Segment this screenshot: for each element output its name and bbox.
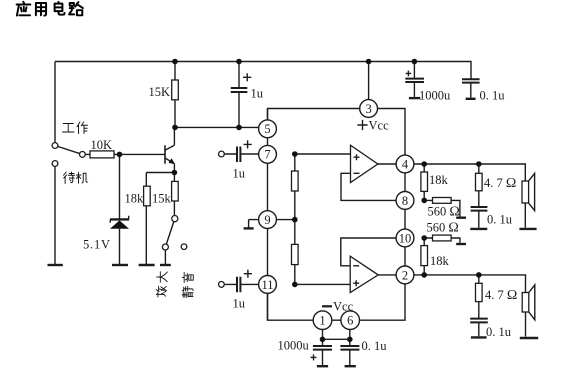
wire 18k feedback column 1: [423, 164, 425, 200]
pin 7: [259, 145, 277, 163]
wire 15k column to mute switch: [173, 173, 175, 216]
wire input 2 to pin11: [224, 283, 267, 285]
wire 10K row: contact to transistor base: [82, 153, 165, 155]
resistor 560 ohm 2: [433, 235, 452, 241]
svg-text:4. 7 Ω: 4. 7 Ω: [484, 176, 516, 191]
svg-text:560 Ω: 560 Ω: [427, 221, 459, 236]
svg-text:10K: 10K: [91, 138, 113, 152]
mute switch terminal amplify: [162, 244, 168, 250]
svg-text:18k: 18k: [125, 192, 145, 206]
svg-text:Vcc: Vcc: [333, 299, 354, 313]
ground mute switch: [160, 264, 171, 266]
svg-text:1: 1: [319, 314, 325, 328]
resistor bias lower: [292, 244, 299, 264]
resistor 15k: [172, 181, 179, 201]
node dots top rail: [172, 59, 178, 65]
wire pin9 ground stem: [248, 220, 250, 228]
capacitor 1000u top: [405, 79, 424, 82]
pin 8: [396, 192, 414, 210]
capacitor input C1: [237, 147, 240, 163]
wire op2 feedback to pin10: [341, 238, 396, 266]
svg-text:1u: 1u: [233, 167, 246, 181]
pin 4: [396, 155, 414, 173]
capacitor 1u top: [231, 88, 248, 92]
svg-text:15k: 15k: [152, 192, 172, 206]
ground 560 ohm 1: [456, 216, 466, 218]
svg-text:4. 7 Ω: 4. 7 Ω: [485, 288, 517, 303]
pin 2: [396, 266, 414, 284]
wire 15K column: [174, 62, 176, 128]
wire pin4 output row to speaker 1: [414, 164, 525, 181]
input terminal 1: [219, 151, 225, 157]
svg-text:1000u: 1000u: [278, 339, 310, 353]
wire switch lever work position: [55, 146, 82, 155]
ground 1000u top: [409, 97, 420, 99]
wire standby branch down to ground: [54, 166, 56, 265]
wire left rail to switch: [54, 62, 56, 143]
capacitor 0.1u bottom: [340, 346, 359, 350]
capacitor input C2: [237, 277, 240, 293]
wire 18k feedback column 2: [423, 238, 425, 275]
capacitor zobel 2: [470, 319, 488, 323]
wire zener column: [119, 154, 121, 265]
pin 5: [259, 120, 277, 138]
svg-text:5: 5: [264, 122, 270, 136]
pin 6: [341, 311, 360, 330]
wire zobel 1 column: [478, 164, 480, 228]
pin 1: [313, 311, 332, 330]
svg-text:18k: 18k: [429, 173, 449, 187]
switch terminal work: [52, 143, 58, 149]
svg-text:15K: 15K: [149, 85, 171, 99]
svg-text:18k: 18k: [430, 254, 450, 268]
wire pin11 row to op-amp 2: [295, 283, 350, 285]
label -Vcc: [322, 305, 332, 307]
ground 1000u bottom: [317, 365, 328, 367]
resistor 560 ohm 1: [433, 198, 452, 204]
svg-text:5.1V: 5.1V: [83, 238, 111, 252]
label 放大 rotated: [156, 272, 167, 297]
wire 560 row 1 to ground: [424, 200, 460, 216]
ground 0.1u bottom: [345, 365, 356, 367]
ground pin9: [244, 227, 254, 229]
wire emitter row to resistors: [146, 172, 174, 174]
svg-text:11: 11: [261, 278, 273, 292]
node dots -Vcc caps: [320, 337, 326, 343]
mute switch terminal top: [172, 216, 178, 222]
svg-text:0. 1u: 0. 1u: [487, 213, 513, 227]
wire op1 output to pin4: [378, 163, 396, 165]
switch terminal moving: [80, 152, 86, 158]
node dots bias column: [292, 151, 298, 157]
speaker LS1: [522, 173, 535, 210]
ground left rail: [48, 264, 63, 266]
svg-text:Vcc: Vcc: [369, 119, 390, 133]
svg-text:1u: 1u: [233, 297, 246, 311]
pin 11: [259, 276, 277, 294]
wire input 1 to pin7: [224, 153, 267, 155]
wire 1u cap column bottom: [238, 92, 240, 127]
ground zobel 2: [471, 336, 487, 338]
ground 0.1u top: [466, 98, 476, 100]
wire 1000u top cap stem: [413, 62, 415, 97]
wire op1 feedback to pin8: [341, 173, 396, 200]
ground speaker 1: [519, 228, 536, 230]
svg-text:560 Ω: 560 Ω: [428, 205, 460, 220]
pin 3: [360, 100, 378, 118]
wire pin5 row: [175, 126, 268, 128]
wire pin1/pin6 decoupling stems: [323, 329, 350, 365]
wire speaker 2 to ground: [525, 312, 527, 337]
ground zener: [112, 264, 128, 266]
ground 560 ohm 2: [456, 243, 466, 245]
capacitor 1000u bottom: [313, 346, 332, 350]
title 应用电路: [17, 2, 83, 16]
pin 10: [396, 229, 414, 247]
svg-text:8: 8: [402, 194, 408, 208]
node dot emitter: [172, 170, 178, 176]
input terminal 2: [219, 282, 225, 288]
wire mute switch to ground: [164, 247, 166, 265]
wire pin3 stem to top rail: [368, 62, 370, 101]
ground zobel 1: [470, 228, 487, 230]
wire 18k left column: [145, 173, 147, 266]
svg-text:2: 2: [402, 268, 408, 282]
label 工作: [63, 122, 88, 134]
speaker LS2: [522, 285, 535, 320]
wire left pin column 5-7-9-11: [267, 109, 269, 321]
capacitor 0.1u top: [462, 79, 480, 82]
wire 0.1u top cap stem: [470, 83, 472, 98]
svg-text:0. 1u: 0. 1u: [486, 325, 512, 339]
node dots right column: [421, 161, 427, 167]
capacitor zobel 1: [471, 207, 488, 211]
wire top +Vcc rail: [55, 62, 471, 80]
wire mute switch lever: [165, 219, 174, 247]
node dots pin5 row: [172, 125, 178, 131]
wire 1u cap column top: [238, 62, 240, 89]
transistor Q1: [165, 127, 175, 172]
resistor 18k left: [144, 186, 151, 206]
svg-text:4: 4: [402, 157, 409, 171]
svg-text:6: 6: [347, 314, 353, 328]
resistor 4.7 ohm 1: [476, 173, 483, 191]
wire IC ring: top bus to pin3, right column pins 4-8-10-2, bottom -Vcc bus, left column pins 5-7-9-11: [268, 109, 406, 321]
svg-text:3: 3: [365, 102, 371, 116]
svg-text:9: 9: [264, 213, 270, 227]
zener diode 5.1V: [110, 216, 129, 229]
resistor 18k right 1: [421, 172, 428, 191]
node dot base row: [117, 152, 123, 158]
mute switch terminal mute: [181, 244, 187, 250]
wire bias divider column: [294, 154, 296, 284]
wire pin2 output row to speaker 2: [414, 275, 526, 293]
resistor bias upper: [292, 171, 299, 191]
svg-text:0. 1u: 0. 1u: [480, 89, 506, 103]
svg-text:10: 10: [399, 231, 412, 245]
label +Vcc: [357, 120, 367, 130]
label 静音 rotated: [182, 272, 193, 297]
label 待机: [64, 172, 88, 184]
wire zobel 2 column: [478, 275, 480, 336]
svg-text:7: 7: [264, 148, 270, 162]
resistor 18k right 2: [421, 246, 428, 266]
wire pin9 row: [249, 219, 295, 221]
ground speaker 2: [520, 337, 538, 339]
wire 560 row 2 to ground: [424, 238, 460, 243]
resistor 15K top: [172, 80, 179, 100]
op-amp U1a: [351, 145, 378, 182]
resistor 4.7 ohm 2: [476, 283, 483, 301]
wire op2 output to pin2: [378, 274, 396, 276]
op-amp U1b: [350, 256, 378, 292]
switch terminal standby: [52, 161, 58, 167]
pin 9: [259, 211, 277, 229]
svg-text:1u: 1u: [251, 87, 264, 101]
resistor 10K: [90, 151, 114, 158]
svg-text:1000u: 1000u: [419, 89, 451, 103]
ground 18k left: [139, 264, 155, 266]
wire pin7 row to op-amp 1: [295, 153, 351, 155]
svg-text:0. 1u: 0. 1u: [362, 339, 388, 353]
wire speaker 1 to ground: [524, 203, 526, 228]
